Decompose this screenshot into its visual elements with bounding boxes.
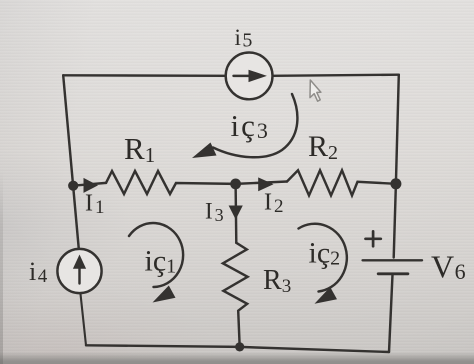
svg-text:R1: R1 (124, 131, 155, 167)
svg-text:iç1: iç1 (145, 245, 177, 278)
svg-text:i4: i4 (29, 257, 49, 287)
svg-text:I1: I1 (85, 191, 107, 219)
svg-text:i5: i5 (235, 25, 254, 52)
svg-text:V6: V6 (431, 249, 466, 285)
svg-text:R2: R2 (308, 130, 338, 164)
svg-text:iç3: iç3 (231, 108, 270, 143)
svg-text:I2: I2 (264, 190, 286, 218)
svg-text:I3: I3 (205, 199, 226, 226)
svg-text:iç2: iç2 (309, 237, 341, 270)
svg-text:R3: R3 (263, 265, 291, 297)
